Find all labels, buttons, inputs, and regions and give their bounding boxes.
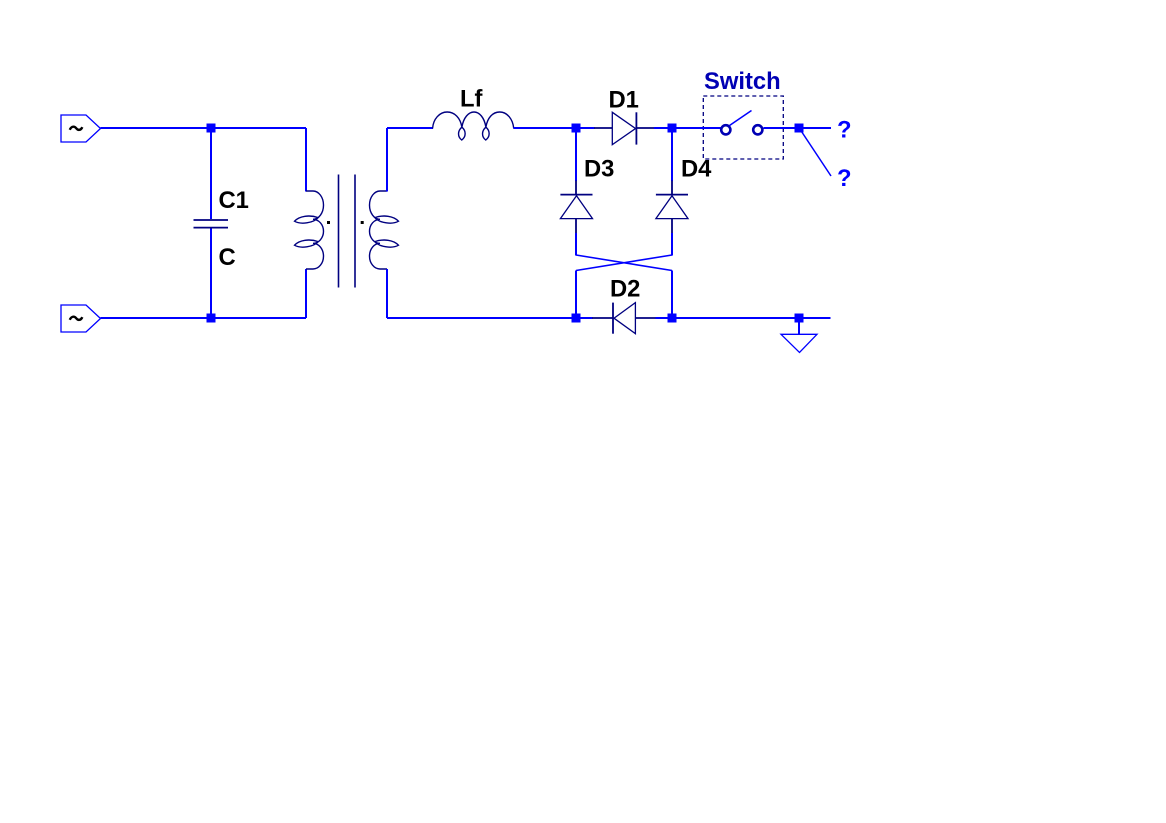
transformer core lines	[339, 175, 356, 288]
wire node B to switch contact	[672, 127, 721, 129]
node F (switch output junction)	[795, 124, 804, 133]
transformer T secondary winding	[370, 191, 399, 269]
wire crossover right vertical to bottom rail	[671, 271, 673, 319]
svg-text:D1: D1	[609, 87, 639, 114]
node B (D1 cathode junction)	[668, 124, 677, 133]
node 1 (top rail / C1 junction)	[207, 124, 216, 133]
wire D4 branch upper	[671, 128, 673, 181]
wire D3 branch upper	[575, 128, 577, 181]
wire crossover D3 to right	[576, 255, 672, 271]
switch S1 dashed box	[703, 96, 783, 159]
node D (bottom right junction)	[668, 314, 677, 323]
switch lever	[730, 111, 752, 126]
wire bottom rail right of D2	[656, 317, 831, 319]
node 2 (bottom rail / C1 junction)	[207, 314, 216, 323]
svg-text:D3: D3	[584, 156, 614, 183]
wire capacitor top lead	[210, 128, 212, 219]
wire D3 lower lead	[575, 233, 577, 256]
switch contact circle left	[721, 125, 730, 134]
wire switch to node F	[764, 127, 832, 129]
diode D3	[560, 181, 592, 235]
AC input terminal T1 (top)	[61, 115, 101, 142]
switch contact circle right	[753, 125, 762, 134]
svg-text:?: ?	[837, 117, 852, 144]
transformer T primary winding	[295, 191, 324, 269]
svg-text:C: C	[219, 244, 236, 271]
wire top-left rail	[101, 127, 307, 129]
wire D1 cathode to node B	[654, 127, 721, 129]
wire ground stem	[798, 322, 800, 334]
transformer phasing dot left	[327, 221, 330, 224]
capacitor C1 plates	[194, 220, 229, 228]
wire diagonal stub from node F	[800, 129, 832, 177]
svg-text:?: ?	[837, 165, 852, 192]
wire capacitor bottom lead	[210, 228, 212, 318]
wire secondary top to inductor	[387, 127, 433, 129]
svg-text:C1: C1	[219, 187, 249, 214]
wire transformer primary top pigtail	[305, 128, 307, 192]
wire transformer secondary top pigtail	[386, 128, 388, 192]
diode D1	[594, 112, 655, 144]
wire bottom-left rail	[101, 317, 307, 319]
svg-text:Switch: Switch	[704, 68, 781, 95]
wire bottom rail left of D2	[387, 317, 593, 319]
inductor Lf	[433, 112, 514, 140]
wire transformer primary bottom pigtail	[305, 269, 307, 318]
node A (D1 anode junction)	[572, 124, 581, 133]
transformer phasing dot right	[361, 221, 364, 224]
node E (ground junction)	[795, 314, 804, 323]
svg-text:Lf: Lf	[460, 86, 483, 113]
AC input terminal T2 (bottom)	[61, 305, 101, 332]
ground symbol	[781, 334, 817, 352]
diode D2	[592, 303, 656, 334]
wire crossover left vertical to bottom rail	[575, 271, 577, 319]
wire transformer secondary bottom pigtail	[386, 269, 388, 318]
node C (bottom left junction)	[572, 314, 581, 323]
svg-text:D2: D2	[610, 276, 640, 303]
wire D4 lower lead	[671, 233, 673, 256]
diode D4	[656, 181, 688, 235]
wire inductor to node A	[514, 127, 595, 129]
wire crossover D4 to left	[576, 255, 672, 271]
